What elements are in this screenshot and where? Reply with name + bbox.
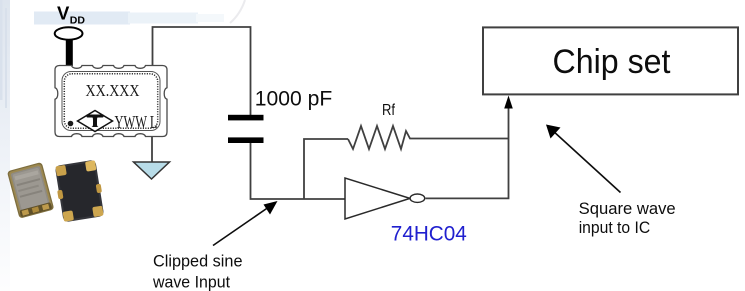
svg-text:74HC04: 74HC04 [391, 223, 467, 246]
svg-text:YWW L: YWW L [115, 112, 158, 132]
svg-text:V: V [57, 3, 70, 24]
svg-text:Chip set: Chip set [553, 43, 672, 81]
svg-text:input to IC: input to IC [579, 219, 651, 237]
svg-text:1000 pF: 1000 pF [255, 87, 332, 110]
svg-text:XX.XXX: XX.XXX [86, 81, 140, 100]
svg-text:DD: DD [70, 15, 86, 27]
svg-text:wave Input: wave Input [152, 273, 230, 291]
svg-text:Rf: Rf [382, 102, 395, 119]
svg-text:Clipped sine: Clipped sine [153, 252, 243, 270]
svg-text:Square wave: Square wave [579, 200, 676, 218]
